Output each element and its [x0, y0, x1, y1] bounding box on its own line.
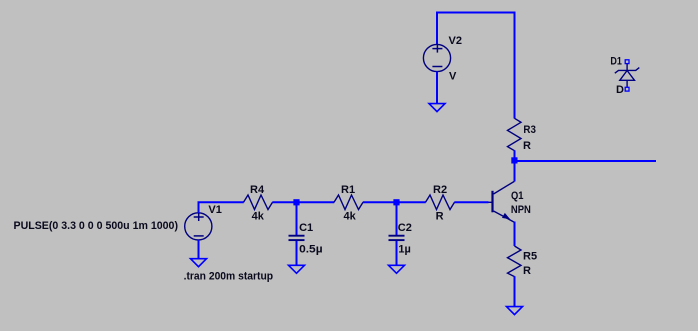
wire R3 bottom to junction	[514, 150, 516, 160]
svg-text:D1: D1	[610, 56, 622, 68]
svg-text:V2: V2	[449, 35, 462, 47]
svg-text:1µ: 1µ	[398, 243, 410, 255]
svg-text:R1: R1	[341, 184, 355, 196]
resistor R1	[334, 184, 363, 223]
resistor R2	[426, 184, 455, 223]
svg-text:R4: R4	[250, 184, 265, 196]
node junction collector	[511, 157, 517, 163]
ground below C2	[389, 265, 405, 273]
node junction C1	[293, 199, 299, 205]
wire right rail vertical down to R3	[514, 12, 516, 119]
ground below V1	[191, 259, 207, 267]
voltage source V2	[423, 35, 462, 83]
ground below V2	[429, 104, 445, 112]
resistor R5	[508, 246, 538, 277]
wire junction to R1	[297, 201, 335, 203]
resistor R3	[508, 118, 536, 152]
svg-text:PULSE(0 3.3 0 0 0 500u 1m 1000: PULSE(0 3.3 0 0 0 500u 1m 1000)	[14, 220, 179, 232]
transistor Q1	[488, 181, 531, 222]
voltage source V1	[185, 204, 222, 240]
capacitor C2	[389, 202, 412, 255]
svg-text:.tran 200m startup: .tran 200m startup	[184, 271, 274, 283]
svg-text:R3: R3	[523, 124, 536, 136]
wire C2 bottom to ground	[396, 241, 398, 266]
wire V2 top vertical	[436, 12, 438, 46]
svg-text:4k: 4k	[344, 211, 357, 223]
wire junction to R2	[397, 201, 426, 203]
ground below C1	[289, 265, 305, 273]
wire Q1 emitter down to R5	[514, 222, 516, 247]
svg-text:R: R	[436, 211, 444, 223]
svg-text:R: R	[523, 265, 531, 277]
wire R1 to junction C2	[363, 201, 397, 203]
svg-text:0.5µ: 0.5µ	[299, 243, 323, 255]
svg-text:V: V	[449, 71, 457, 83]
svg-text:Q1: Q1	[511, 190, 524, 202]
resistor R4	[244, 184, 273, 223]
svg-text:D: D	[616, 84, 624, 96]
svg-text:R5: R5	[523, 250, 537, 262]
ground below R5	[507, 307, 523, 315]
svg-text:C1: C1	[299, 222, 313, 234]
svg-text:C2: C2	[398, 222, 412, 234]
wire junction down to Q1 collector	[514, 161, 516, 182]
wire V1 top up and right to R4	[199, 202, 244, 213]
node junction C2	[393, 199, 399, 205]
svg-text:NPN: NPN	[511, 204, 531, 216]
svg-text:R2: R2	[433, 184, 447, 196]
wire R4 to junction C1	[272, 201, 296, 203]
svg-text:R: R	[523, 140, 531, 152]
wire V1 bottom to ground	[198, 240, 200, 259]
wire V2 bottom to ground	[436, 72, 438, 105]
diode D1	[610, 56, 639, 96]
svg-text:4k: 4k	[252, 211, 265, 223]
wire R5 bottom to ground	[514, 276, 516, 307]
capacitor C1	[289, 202, 323, 255]
wire R2 to Q1 base	[454, 201, 488, 203]
wire C1 bottom to ground	[296, 241, 298, 266]
wire top horizontal V2 to right rail	[436, 12, 516, 14]
wire output to right	[515, 160, 657, 162]
svg-text:V1: V1	[208, 204, 221, 216]
